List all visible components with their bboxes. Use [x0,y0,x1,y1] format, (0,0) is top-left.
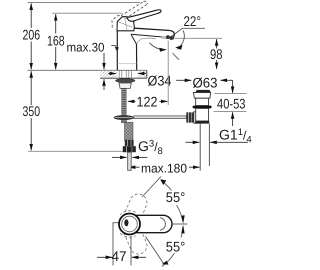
pop-up rod [134,116,187,119]
dashed raised lever [112,1,148,27]
deck cross-section hatching right [137,71,146,78]
svg-text:55°: 55° [166,189,186,205]
svg-text:98: 98 [210,46,223,62]
dimension 168 [55,14,57,69]
handle knuckle [117,17,134,31]
deck cross-section hatching left [100,71,117,78]
lever top view pill [121,215,173,232]
wire 350 bottom reference line [28,150,123,152]
svg-text:168: 168 [47,32,65,48]
wire reference line 168 [52,12,123,14]
supply pipe [128,152,132,170]
55 deg lower label [165,241,188,253]
dimension 98 [216,39,218,69]
pop-up waste flange [193,93,210,99]
waste tailpipe [199,124,201,171]
washer under deck [115,79,135,83]
svg-text:122: 122 [137,94,158,110]
55 deg lower arc [181,226,183,237]
wire deck line [28,69,148,71]
dimension 40-53 [215,93,247,95]
dashed swing arcs around body [120,211,136,215]
svg-text:350: 350 [23,103,41,119]
pop-up rod nut at waste [186,112,194,122]
aerator rings [166,35,170,39]
mounting nut [119,83,131,88]
deck arrows for base width [108,73,116,75]
55 deg upper extension line [142,177,161,198]
svg-text:55°: 55° [166,239,186,255]
deck bottom line [100,77,147,79]
dimension 350 [30,71,32,150]
svg-text:47: 47 [112,248,127,264]
pop-up waste plug [196,90,211,92]
svg-text:40-53: 40-53 [217,95,246,111]
waste bottom band [195,121,209,124]
dashed lever position up [118,191,149,235]
waste outlet stub [194,112,198,123]
55 deg upper arc [161,180,172,190]
waste body upper [196,98,209,105]
waste o-ring [193,106,212,109]
body circle dot [124,219,128,226]
centerline right segment [172,223,188,225]
svg-text:max.30: max.30 [67,41,105,55]
svg-text:Ø63: Ø63 [193,75,218,91]
dimension 206 [30,3,32,69]
body circle [119,214,140,235]
waste body lower [196,108,209,121]
bracket washer [114,115,134,119]
faucet base seam [117,63,136,65]
handle lever blade [127,10,161,22]
dimension 47 [130,236,132,266]
wire spout height reference line [175,37,223,39]
faucet body [117,28,174,70]
55 deg lower extension line [146,237,164,264]
flexible hose braided [125,122,133,141]
55 deg upper label [165,192,188,204]
svg-text:206: 206 [23,27,41,43]
hose nut upper [125,140,134,146]
hose nut lower [123,146,136,152]
deck right edge [146,70,148,78]
spout fillet reflection [137,38,156,44]
leader arrow at body left edge [111,45,116,47]
wire top reference line 206 [28,2,141,4]
aerator shading [161,36,167,39]
centerline left segment [113,223,120,266]
wire 22 degree arc left [150,43,166,50]
dimension 122 [128,100,168,102]
dashed lever position down [118,212,149,256]
svg-text:22°: 22° [184,13,202,29]
rod stub below bracket [122,120,127,123]
svg-text:max.180: max.180 [141,162,187,176]
wire spout tip extension line [167,41,169,106]
wire 22 degree arc right [178,31,185,50]
threaded rod [122,88,127,117]
lever inner end cap [160,218,165,231]
shank through deck [119,71,131,79]
